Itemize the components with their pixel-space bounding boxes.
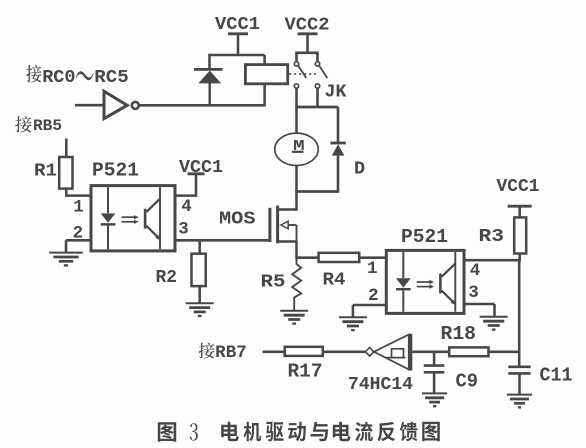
resistor R5 (current sense) bbox=[292, 258, 301, 312]
wire: U3 pin4 to VCC1 rail bbox=[464, 259, 520, 262]
optocoupler U2 P521 bbox=[91, 186, 175, 251]
wire: source down to sense node bbox=[295, 242, 298, 259]
resistor R1 bbox=[59, 157, 72, 189]
inverter U1 (relay driver, NOT gate) bbox=[104, 91, 139, 118]
relay linkage (dashed) bbox=[289, 73, 316, 75]
wire: inverter output to relay coil node bbox=[139, 104, 265, 107]
ground (U3 pin2) bbox=[339, 317, 367, 330]
svg-text:MOS: MOS bbox=[219, 208, 256, 229]
power VCC1 (top, relay supply) bbox=[215, 14, 260, 55]
label R17 bbox=[288, 361, 323, 383]
svg-text:4: 4 bbox=[470, 261, 481, 281]
svg-text:3: 3 bbox=[178, 219, 189, 239]
wire: motor bottom rail bbox=[295, 165, 338, 192]
svg-text:R1: R1 bbox=[34, 161, 57, 182]
label 接RB7 (to RB7 port) bbox=[199, 343, 247, 364]
label R5 bbox=[261, 272, 286, 293]
power VCC1 (right) bbox=[497, 176, 540, 219]
ground (U3 pin3) bbox=[480, 317, 508, 330]
wire: VCC1 rail down to C11 bbox=[518, 260, 521, 367]
label D bbox=[354, 159, 365, 180]
node wire: inverter U1 input from RC port bbox=[75, 104, 104, 107]
relay contact JK left bbox=[294, 62, 306, 89]
svg-text:2: 2 bbox=[368, 286, 379, 306]
wire: pin4 to VCC1 bbox=[175, 194, 196, 197]
pin 1 (U2) bbox=[73, 198, 84, 218]
inverter U4 74HC14 (Schmitt) bbox=[365, 334, 412, 371]
label JK bbox=[325, 81, 348, 102]
diode D1 (relay flyback) bbox=[194, 69, 223, 106]
power VCC1 (above U2 pin4) bbox=[179, 157, 223, 197]
optocoupler U3 P521 bbox=[386, 250, 464, 313]
wire: drain bbox=[295, 192, 298, 211]
svg-text:1: 1 bbox=[73, 198, 84, 218]
svg-text:3: 3 bbox=[468, 283, 479, 303]
svg-text:C9: C9 bbox=[456, 370, 479, 392]
svg-text:JK: JK bbox=[325, 81, 348, 102]
svg-text:P521: P521 bbox=[401, 226, 448, 248]
svg-text:RB5: RB5 bbox=[33, 117, 62, 135]
ground (R2) bbox=[186, 303, 214, 316]
svg-text:R4: R4 bbox=[323, 270, 346, 291]
label R4 bbox=[323, 270, 346, 291]
wire: VCC2 to contacts bbox=[295, 53, 319, 62]
power VCC2 (contact supply) bbox=[285, 14, 330, 53]
wire: R1 to pin1 bbox=[66, 189, 91, 197]
wire: U3 pin2 to ground bbox=[353, 305, 386, 318]
wire: inverter input from sense filter bbox=[412, 351, 449, 354]
ground (R5) bbox=[280, 311, 308, 324]
wire: R3 to pin4 node bbox=[518, 254, 521, 262]
label MOS bbox=[219, 208, 256, 229]
wire: R18 to VCC1 rail bbox=[489, 351, 521, 354]
svg-text:RC0: RC0 bbox=[42, 67, 75, 88]
caption 图3 电机驱动与电流反馈图 bbox=[158, 422, 440, 442]
relay contact JK right bbox=[315, 62, 327, 89]
resistor R3 bbox=[514, 217, 526, 253]
capacitor C9 bbox=[424, 366, 445, 394]
svg-text:1: 1 bbox=[367, 259, 378, 279]
wire: RB7 to R17 bbox=[263, 351, 285, 354]
wire: R2 to ground bbox=[198, 286, 201, 304]
label R18 bbox=[441, 323, 477, 345]
label R1 bbox=[34, 161, 57, 182]
label 接RC0~RC5 (to RC0-RC5 port) bbox=[26, 65, 129, 88]
resistor R2 bbox=[192, 254, 206, 286]
svg-text:4: 4 bbox=[181, 197, 192, 217]
pin 3 (U3) bbox=[468, 283, 479, 303]
wire: pin2 to ground bbox=[66, 240, 91, 253]
svg-text:R3: R3 bbox=[479, 226, 505, 247]
label 接RB5 (to RB5 port) bbox=[15, 116, 62, 135]
wire: pin3 to MOSFET gate bbox=[175, 239, 269, 242]
label 74HC14 bbox=[348, 375, 413, 395]
transistor Q1 MOSFET bbox=[268, 206, 296, 244]
label C11 bbox=[540, 364, 573, 386]
svg-text:P521: P521 bbox=[92, 160, 139, 182]
diode D (motor flyback) bbox=[331, 143, 346, 193]
label R3 bbox=[479, 226, 505, 247]
wire: VCC1 to relay top node bbox=[208, 54, 264, 57]
wire: contacts to motor node bbox=[295, 88, 338, 143]
pin 4 (U2) bbox=[181, 197, 192, 217]
resistor R4 bbox=[319, 253, 360, 262]
motor M bbox=[275, 133, 319, 165]
pin 3 (U2) bbox=[178, 219, 189, 239]
svg-text:RB7: RB7 bbox=[215, 343, 247, 363]
wire: U3 pin3 to ground bbox=[464, 304, 495, 318]
svg-text:VCC2: VCC2 bbox=[285, 14, 330, 35]
label C9 bbox=[456, 370, 479, 392]
wire: R4 to U3 pin1 bbox=[359, 256, 386, 259]
label R2 bbox=[156, 267, 178, 288]
ground (C11) bbox=[507, 395, 532, 408]
pin 2 (U3) bbox=[368, 286, 379, 306]
ground (U2 pin2) bbox=[49, 253, 83, 266]
wire: R17 to inverter output bbox=[323, 351, 366, 354]
resistor R18 bbox=[449, 347, 488, 356]
wire: sense node to R4 bbox=[297, 256, 319, 259]
svg-text:R2: R2 bbox=[156, 267, 178, 288]
wire: C9 tap bbox=[433, 352, 436, 366]
pin 2 (U2) bbox=[73, 223, 84, 243]
capacitor C11 bbox=[508, 367, 530, 395]
ground (C9) bbox=[422, 393, 447, 406]
label P521 (left) bbox=[92, 160, 139, 182]
svg-text:VCC1: VCC1 bbox=[215, 14, 260, 35]
svg-text:74HC14: 74HC14 bbox=[348, 375, 413, 395]
svg-text:R5: R5 bbox=[261, 272, 286, 293]
label P521 (right) bbox=[401, 226, 448, 248]
wire: R2 tap bbox=[198, 240, 201, 253]
pin 1 (U3) bbox=[367, 259, 378, 279]
svg-text:VCC1: VCC1 bbox=[497, 176, 540, 197]
svg-text:R17: R17 bbox=[288, 361, 323, 383]
resistor R17 bbox=[285, 347, 323, 356]
svg-text:C11: C11 bbox=[540, 364, 573, 386]
svg-text:R18: R18 bbox=[441, 323, 477, 345]
pin 4 (U3) bbox=[470, 261, 481, 281]
wire: RB5 to R1 bbox=[65, 139, 68, 158]
svg-text:D: D bbox=[354, 159, 365, 180]
relay coil JK bbox=[245, 55, 287, 106]
wire: flyback diode branch bbox=[208, 54, 211, 68]
svg-text:RC5: RC5 bbox=[94, 67, 128, 88]
